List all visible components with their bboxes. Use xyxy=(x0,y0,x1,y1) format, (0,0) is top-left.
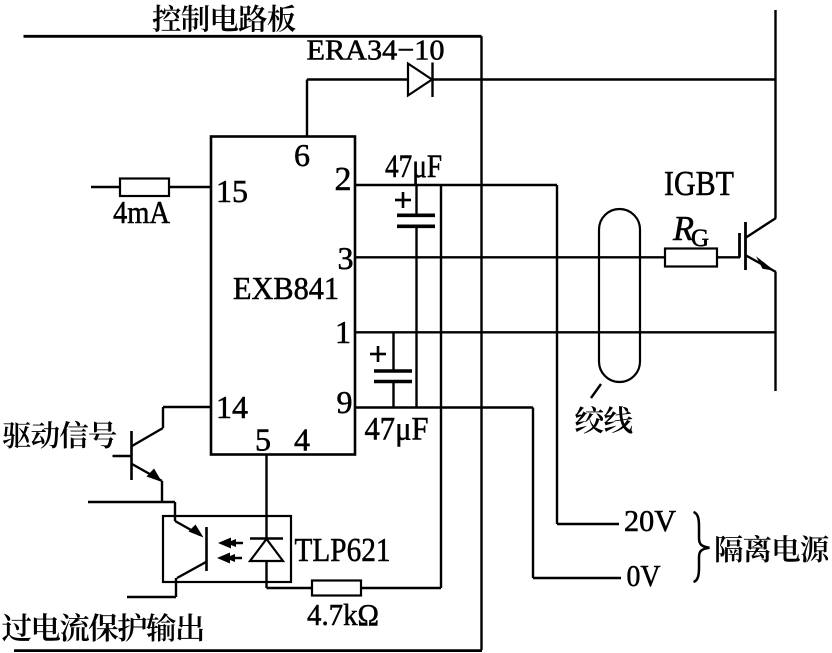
wire 20V stub xyxy=(557,523,619,525)
svg-text:4mA: 4mA xyxy=(113,194,170,230)
wire collector rail top xyxy=(774,10,776,218)
wire 0V drop xyxy=(532,408,534,579)
wire 4mA to pin15 xyxy=(169,186,211,188)
tick to 绞线 label xyxy=(591,384,601,398)
wire pin 2 row xyxy=(355,184,557,186)
wire diode row horizontal xyxy=(307,78,776,80)
svg-text:IGBT: IGBT xyxy=(664,164,734,203)
svg-text:2: 2 xyxy=(335,161,352,198)
wire 20V drop xyxy=(556,185,558,524)
svg-text:15: 15 xyxy=(216,173,248,209)
LED diode of TLP621 xyxy=(250,537,283,539)
wire Q1 collector to pin 14 xyxy=(162,407,164,428)
svg-text:3: 3 xyxy=(338,240,354,276)
wire LED to 4.7k row xyxy=(265,561,267,588)
capacitor C2 47uF xyxy=(392,332,394,369)
svg-text:EXB841: EXB841 xyxy=(233,271,339,306)
IC U1 EXB841 box xyxy=(211,137,355,455)
wire pin 9 row xyxy=(355,406,533,408)
label 隔离电源 xyxy=(716,535,828,563)
label 绞线 xyxy=(575,406,632,434)
wire control board bottom edge xyxy=(14,649,482,652)
label 驱动信号 xyxy=(3,421,116,449)
wire gate RG to IGBT xyxy=(717,256,740,258)
label 过电流保护输出 xyxy=(2,613,203,642)
wire pin 5 to LED xyxy=(265,455,267,539)
capacitor C1 47uF xyxy=(415,185,417,214)
twisted-pair shield oval xyxy=(599,209,640,382)
resistor RG xyxy=(665,249,717,267)
svg-text:TLP621: TLP621 xyxy=(295,532,391,569)
wire R2 to riser xyxy=(361,587,441,589)
svg-text:9: 9 xyxy=(337,384,353,420)
light arrow 1 xyxy=(227,542,243,545)
label control board 控制电路板 xyxy=(153,4,296,32)
svg-text:47μF: 47μF xyxy=(385,149,442,185)
wire phototransistor emitter down xyxy=(175,578,177,597)
transistor IGBT symbol xyxy=(746,218,776,238)
svg-text:1: 1 xyxy=(335,314,351,350)
svg-text:4: 4 xyxy=(294,422,310,458)
wire pin 1 row to emitter xyxy=(355,331,776,333)
wire pin 6 vertical xyxy=(306,80,308,138)
svg-text:20V: 20V xyxy=(624,503,677,538)
wire LED to R2 xyxy=(267,587,313,589)
wire 4mA input left xyxy=(91,186,120,188)
wire emitter row xyxy=(88,501,175,503)
wire control board right edge xyxy=(480,36,482,650)
svg-text:G: G xyxy=(691,225,709,252)
phototransistor of TLP621 xyxy=(175,521,200,535)
wire emitter rail xyxy=(774,272,776,391)
wire pin 3 row to gate xyxy=(355,256,665,258)
wire Q1 emitter down xyxy=(161,481,163,502)
wire 0V stub xyxy=(533,577,621,579)
svg-text:0V: 0V xyxy=(627,558,662,593)
wire riser to pin2 row xyxy=(440,185,442,588)
diode D1 ERA34-10 xyxy=(408,64,432,96)
svg-text:ERA34−10: ERA34−10 xyxy=(307,35,445,67)
svg-text:14: 14 xyxy=(216,389,248,425)
wire control board top edge xyxy=(24,35,482,38)
brace isolated supply xyxy=(694,512,710,582)
wire into optocoupler top xyxy=(174,502,176,521)
wire overcurrent output row xyxy=(127,596,176,598)
resistor R2 4.7kOhm xyxy=(312,581,361,596)
label C1 polarity plus xyxy=(395,199,411,202)
transistor Q1 xyxy=(130,431,133,480)
label C2 polarity plus xyxy=(370,353,386,356)
svg-text:4.7kΩ: 4.7kΩ xyxy=(307,597,379,632)
svg-text:5: 5 xyxy=(255,422,271,458)
svg-text:47μF: 47μF xyxy=(365,412,429,448)
light arrow 2 xyxy=(226,557,242,560)
svg-text:6: 6 xyxy=(294,137,310,173)
optocoupler TLP621 box xyxy=(163,516,291,582)
resistor R1 4mA xyxy=(120,179,169,197)
